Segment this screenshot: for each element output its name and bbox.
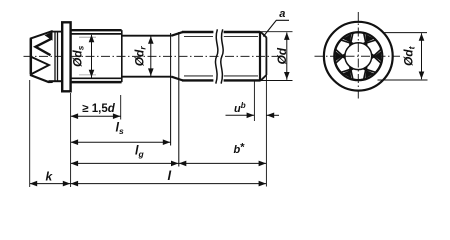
collar top line [51, 31, 63, 33]
head lobe zigzag upper [36, 39, 52, 56]
leader a line [263, 20, 289, 36]
thread crest top [182, 31, 260, 33]
ext line under head [70, 93, 72, 187]
ext line k [29, 80, 31, 187]
ub ext line left [253, 81, 255, 121]
outer circle [324, 22, 393, 91]
thread crest bottom [182, 79, 260, 81]
dim bstar [179, 162, 267, 164]
torx tooth [376, 40, 381, 49]
chamfer circle line [259, 31, 261, 81]
Odt ext bottom [378, 79, 428, 81]
dim lg [71, 162, 179, 164]
dim dr line [150, 36, 152, 76]
break line 1 [215, 29, 217, 83]
torx valley fill [374, 51, 381, 61]
collar bottom line [49, 80, 63, 82]
waist top line [123, 35, 172, 37]
head lobe zigzag lower [32, 57, 50, 74]
shank section ds top crest [71, 29, 122, 31]
waist bottom line [123, 76, 172, 78]
inner circle [334, 32, 382, 80]
thread root bottom [184, 75, 258, 77]
ub dim right part [266, 114, 279, 116]
chamfer cone top [261, 32, 267, 37]
dim k [30, 183, 71, 185]
torx valley fill [365, 34, 374, 42]
svg-text:Ød: Ød [275, 47, 289, 64]
svg-text:l: l [168, 168, 172, 183]
centerline side view [24, 55, 284, 57]
torx valley fill [343, 70, 352, 78]
torx teeth [336, 32, 382, 80]
end face [265, 37, 267, 75]
head bottom edge [30, 75, 53, 82]
torx valley fill [365, 70, 374, 78]
shank section ds top root [71, 33, 122, 35]
torx valley fill [343, 34, 352, 42]
head lobe wedge fill [45, 32, 53, 41]
dim ls [71, 141, 171, 143]
head top edge [30, 31, 53, 39]
torx valley fill [336, 51, 343, 61]
torx tooth [336, 40, 341, 49]
ext line end face lower [265, 75, 267, 187]
torx tooth [353, 78, 364, 81]
Od ext bottom [258, 80, 293, 82]
Odt ext top [384, 32, 428, 34]
shank section ds bottom crest [71, 81, 122, 84]
head star left face [30, 38, 33, 74]
collar vertical 2 [57, 32, 59, 81]
v centerline [357, 12, 359, 100]
chamfer cone bottom [261, 75, 267, 80]
break line 2 [221, 29, 223, 83]
dim ds tick top [79, 36, 96, 38]
cone bottom [172, 77, 184, 81]
ext line 1.5d [120, 95, 122, 120]
shank step edge [121, 30, 123, 82]
dim ds tick bottom [79, 74, 96, 76]
dim l [71, 183, 267, 185]
svg-text:≥ 1,5d: ≥ 1,5d [82, 103, 116, 115]
collar vertical 1 [54, 32, 56, 81]
torx tooth [336, 63, 341, 72]
ext line ls [170, 33, 172, 146]
ub dim left part [226, 114, 255, 116]
Od dim line [286, 32, 288, 79]
dim 1.5d [71, 115, 121, 117]
Od ext top [258, 31, 293, 33]
cone top [172, 32, 184, 36]
flange [62, 22, 70, 91]
torx tooth [353, 31, 364, 34]
h centerline [315, 55, 401, 57]
dim ds line [91, 35, 93, 78]
Odt dim line [421, 33, 423, 79]
thread root top [184, 36, 258, 38]
torx tooth [376, 63, 381, 72]
ext line lg [178, 32, 180, 167]
central circle [345, 43, 372, 70]
shank section ds bottom root [71, 77, 122, 79]
svg-text:a: a [279, 8, 285, 20]
